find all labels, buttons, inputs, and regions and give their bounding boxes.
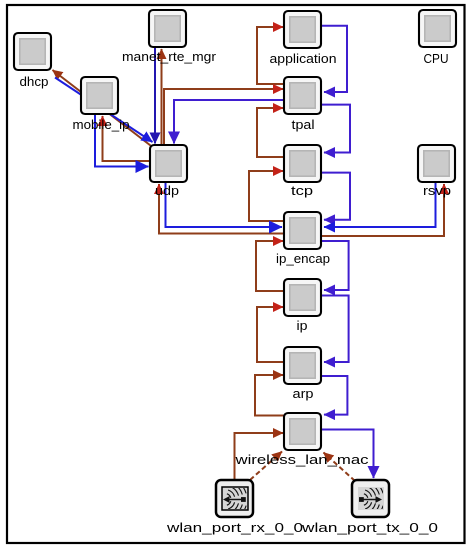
svg-text:wlan_port_rx_0_0: wlan_port_rx_0_0 bbox=[166, 520, 303, 535]
svg-text:ip: ip bbox=[297, 318, 308, 333]
svg-text:mobile_ip: mobile_ip bbox=[73, 117, 130, 132]
svg-text:arp: arp bbox=[293, 386, 314, 401]
svg-text:tpal: tpal bbox=[292, 117, 315, 132]
svg-text:rsvp: rsvp bbox=[423, 183, 451, 198]
svg-text:udp: udp bbox=[155, 183, 179, 198]
svg-text:wireless_lan_mac: wireless_lan_mac bbox=[234, 452, 369, 467]
svg-text:application: application bbox=[270, 51, 337, 66]
svg-text:manet_rte_mgr: manet_rte_mgr bbox=[122, 49, 217, 64]
svg-text:tcp: tcp bbox=[291, 183, 313, 198]
svg-text:CPU: CPU bbox=[424, 51, 449, 66]
svg-text:wlan_port_tx_0_0: wlan_port_tx_0_0 bbox=[301, 520, 438, 535]
svg-text:ip_encap: ip_encap bbox=[276, 251, 330, 266]
svg-text:dhcp: dhcp bbox=[20, 74, 49, 89]
